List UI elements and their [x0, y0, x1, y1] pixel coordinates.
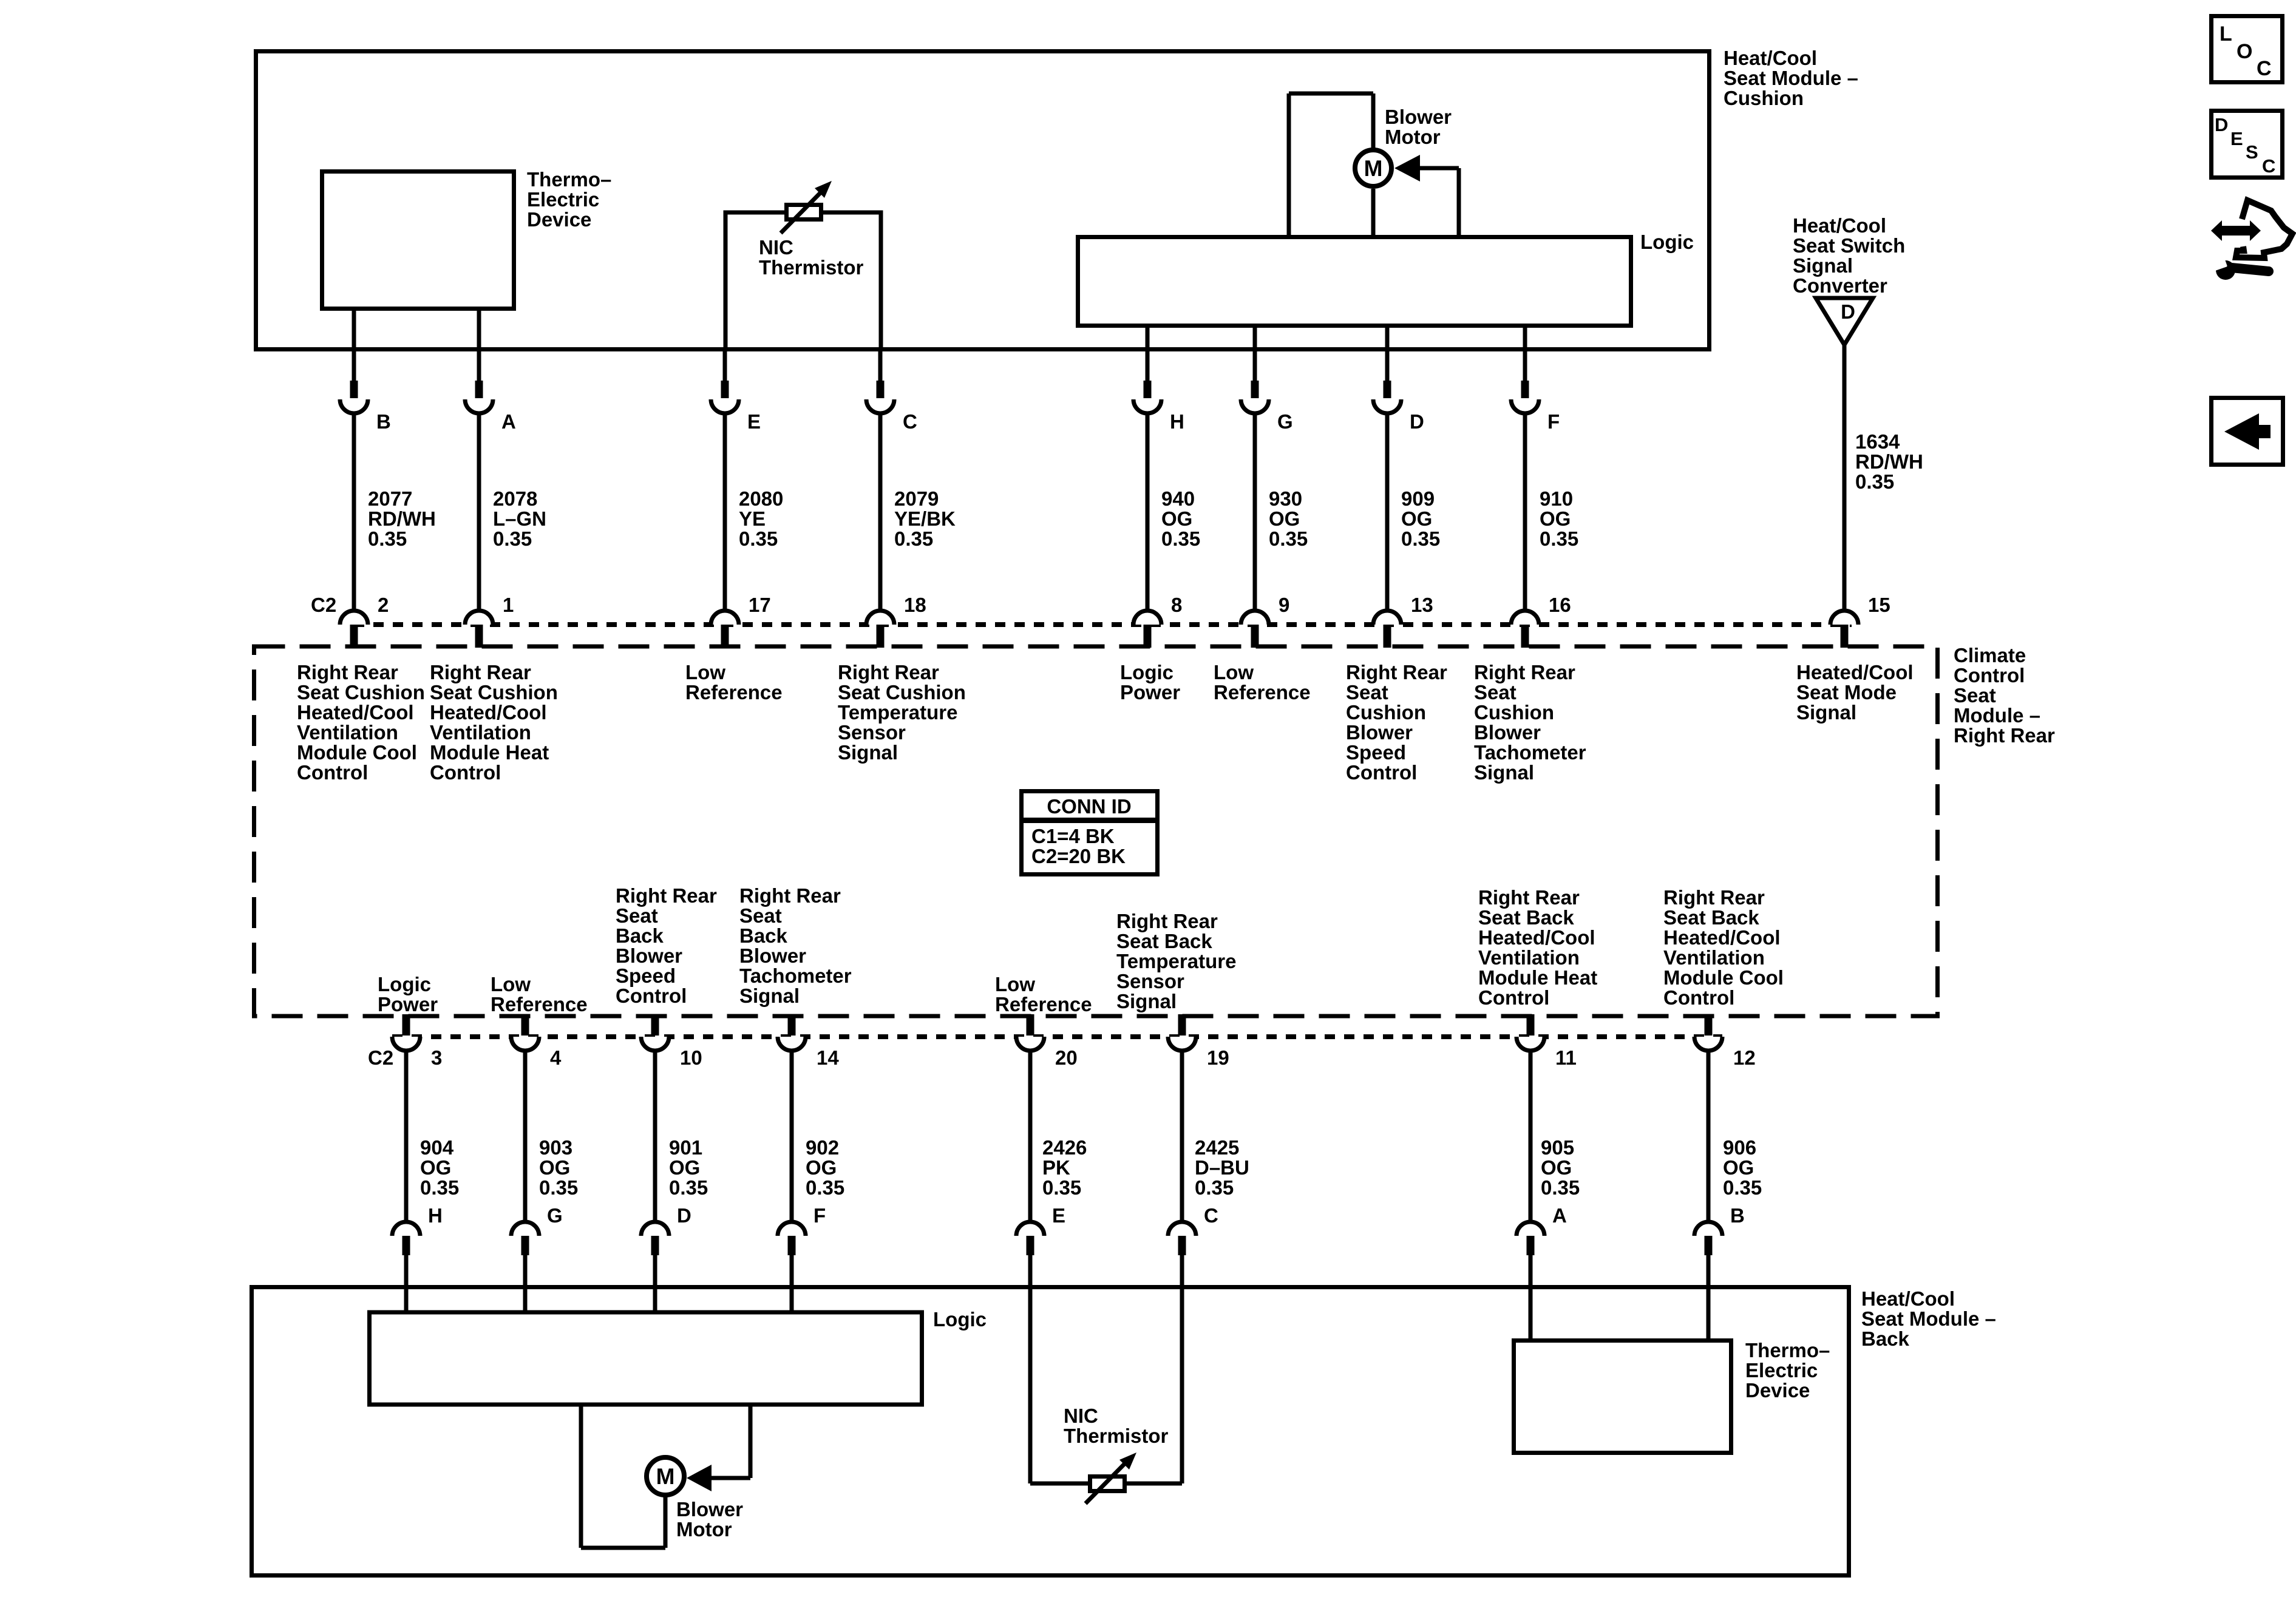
- svg-text:Back: Back: [616, 924, 664, 947]
- pin 11 terminal from module: [1527, 1014, 1535, 1036]
- wire M1 control feed vertical: [1457, 168, 1461, 235]
- svg-text:Blower: Blower: [616, 944, 682, 967]
- svg-text:Right Rear: Right Rear: [616, 884, 717, 907]
- svg-text:902: 902: [806, 1136, 839, 1159]
- svg-text:Seat: Seat: [739, 904, 782, 927]
- svg-text:C2: C2: [311, 594, 336, 616]
- svg-text:D: D: [2215, 114, 2228, 135]
- wire module lead pin A: [477, 349, 481, 381]
- svg-text:Seat Back: Seat Back: [1663, 906, 1759, 929]
- CONN ID header divider: [1019, 818, 1160, 823]
- svg-text:Reference: Reference: [491, 993, 588, 1015]
- svg-text:Temperature: Temperature: [838, 701, 957, 724]
- svg-text:Motor: Motor: [676, 1518, 732, 1541]
- wire blower motor M1 right lead upper: [1371, 93, 1376, 149]
- pin 1 connector arc (C2 top): [465, 611, 493, 625]
- svg-text:Module Cool: Module Cool: [297, 741, 417, 764]
- svg-text:Control: Control: [1663, 986, 1734, 1009]
- svg-text:0.35: 0.35: [739, 527, 778, 550]
- wire label circuit 903 OG 0.35: [539, 1136, 578, 1199]
- pin A connector arc: [465, 399, 493, 413]
- svg-text:0.35: 0.35: [368, 527, 407, 550]
- svg-text:E: E: [1052, 1204, 1065, 1227]
- wire module lead pin G: [1253, 349, 1257, 381]
- svg-text:Sensor: Sensor: [838, 721, 906, 744]
- pin 8 connector arc (C2 top): [1133, 611, 1161, 625]
- svg-text:Heated/Cool: Heated/Cool: [1663, 926, 1781, 949]
- svg-text:Signal: Signal: [1796, 701, 1856, 724]
- wire TED1 pin A lead: [477, 311, 481, 349]
- svg-text:Heated/Cool: Heated/Cool: [430, 701, 547, 724]
- svg-text:Blower: Blower: [1474, 721, 1541, 744]
- svg-text:OG: OG: [1541, 1156, 1572, 1179]
- wire blower motor M2 riser: [664, 1497, 668, 1548]
- pin 17 connector arc (C2 top): [711, 611, 739, 625]
- svg-text:Seat: Seat: [1346, 681, 1388, 703]
- wire pin H into logic U2: [404, 1255, 409, 1314]
- svg-text:Right Rear: Right Rear: [1346, 661, 1447, 683]
- pin H male terminal (back module): [402, 1236, 410, 1255]
- svg-text:Heat/Cool: Heat/Cool: [1724, 47, 1817, 69]
- wire pin G into logic U2: [523, 1255, 528, 1314]
- svg-text:9: 9: [1279, 594, 1289, 616]
- wire label circuit 2079 YE/BK 0.35: [894, 487, 956, 550]
- svg-text:0.35: 0.35: [669, 1176, 708, 1199]
- label DESC letters: [2215, 114, 2275, 177]
- wire label circuit 2426 PK 0.35: [1042, 1136, 1087, 1199]
- pin 12 terminal from module: [1705, 1014, 1713, 1036]
- label Heat/Cool Seat Switch Signal Converter: [1793, 214, 1905, 297]
- pin B connector arc (back module): [1694, 1222, 1722, 1236]
- svg-text:Seat Cushion: Seat Cushion: [838, 681, 966, 703]
- wire blower motor M2 left lead: [579, 1406, 583, 1548]
- pin 3 connector arc (C2 bottom): [392, 1037, 420, 1051]
- svg-text:20: 20: [1055, 1046, 1078, 1069]
- pin 19 terminal from module: [1178, 1014, 1186, 1036]
- svg-text:C: C: [2262, 155, 2275, 177]
- svg-text:2077: 2077: [368, 487, 412, 510]
- wire label circuit 2425 D-BU 0.35: [1195, 1136, 1249, 1199]
- svg-text:11: 11: [1555, 1046, 1577, 1069]
- svg-text:Control: Control: [297, 761, 368, 784]
- svg-text:0.35: 0.35: [539, 1176, 578, 1199]
- svg-text:Tachometer: Tachometer: [1474, 741, 1586, 764]
- svg-text:904: 904: [420, 1136, 454, 1159]
- svg-text:0.35: 0.35: [1195, 1176, 1234, 1199]
- wire TED1 pin B lead: [352, 311, 356, 349]
- pin A connector arc (back module): [1517, 1222, 1544, 1236]
- blower motor M2 (back): [647, 1457, 684, 1495]
- wire circuit to pin F: [1523, 413, 1527, 611]
- svg-text:RD/WH: RD/WH: [1855, 450, 1923, 473]
- thermistor RT2 arrowhead: [1119, 1453, 1136, 1470]
- wire M2 control feed vertical: [749, 1406, 753, 1478]
- pin E male terminal: [721, 381, 729, 398]
- icon box LOC: [2212, 16, 2283, 83]
- pin 9 connector arc (C2 top): [1241, 611, 1269, 625]
- wire M2 control feed horizontal: [693, 1476, 750, 1480]
- wire blower motor M2 bottom lead: [581, 1546, 665, 1550]
- svg-text:Signal: Signal: [1474, 761, 1534, 784]
- svg-text:Seat Cushion: Seat Cushion: [297, 681, 425, 703]
- svg-text:910: 910: [1540, 487, 1573, 510]
- svg-text:13: 13: [1411, 594, 1433, 616]
- svg-text:Seat Module –: Seat Module –: [1724, 67, 1858, 89]
- svg-text:Logic: Logic: [378, 973, 431, 995]
- logic block U2 (back): [370, 1312, 922, 1405]
- svg-text:0.35: 0.35: [1401, 527, 1440, 550]
- wire label circuit 2078 L-GN 0.35: [493, 487, 546, 550]
- svg-text:16: 16: [1549, 594, 1571, 616]
- svg-text:940: 940: [1161, 487, 1195, 510]
- wire circuit from pin 14: [790, 1051, 794, 1222]
- wire module lead pin C: [878, 349, 883, 381]
- svg-text:Signal: Signal: [739, 985, 800, 1007]
- CONN ID table box: [1022, 792, 1158, 875]
- svg-text:H: H: [1170, 410, 1184, 433]
- wire label circuit 2077 RD/WH 0.35: [368, 487, 436, 550]
- pin F male terminal (back module): [788, 1236, 796, 1255]
- wire circuit from pin 20: [1028, 1051, 1033, 1222]
- svg-text:M: M: [656, 1464, 675, 1489]
- svg-text:Control: Control: [616, 985, 687, 1007]
- label Thermo-Electric Device (cushion): [527, 168, 611, 231]
- pin A male terminal: [475, 381, 483, 398]
- pin 15 function label: [1796, 661, 1914, 724]
- svg-text:Speed: Speed: [1346, 741, 1406, 764]
- pin 11 connector arc (C2 bottom): [1517, 1037, 1544, 1051]
- svg-text:18: 18: [904, 594, 926, 616]
- svg-text:C: C: [903, 410, 917, 433]
- svg-text:Blower: Blower: [1346, 721, 1413, 744]
- pin 17 function label: [685, 661, 783, 703]
- svg-text:C2=20 BK: C2=20 BK: [1031, 845, 1126, 867]
- svg-text:905: 905: [1541, 1136, 1574, 1159]
- thermo-electric device TED1 (cushion): [322, 172, 514, 309]
- svg-text:Cushion: Cushion: [1724, 87, 1804, 109]
- thermo-electric device TED2 (back): [1514, 1341, 1731, 1453]
- pin G male terminal (back module): [521, 1236, 529, 1255]
- wire circuit 1634 to pin 15: [1843, 345, 1847, 611]
- pin 12 connector arc (C2 bottom): [1694, 1037, 1722, 1051]
- pin C connector arc (back module): [1168, 1222, 1196, 1236]
- svg-text:Heated/Cool: Heated/Cool: [297, 701, 414, 724]
- pin C male terminal: [877, 381, 885, 398]
- label NIC Thermistor (cushion): [759, 236, 864, 279]
- svg-text:Low: Low: [685, 661, 725, 683]
- svg-text:Module –: Module –: [1954, 704, 2040, 727]
- pin 18 terminal into module: [877, 625, 885, 648]
- icon back-arrow glyph: [2224, 413, 2271, 450]
- wire label circuit 904 OG 0.35: [420, 1136, 459, 1199]
- pin 4 connector arc (C2 bottom): [511, 1037, 539, 1051]
- svg-text:OG: OG: [669, 1156, 700, 1179]
- svg-text:Temperature: Temperature: [1116, 950, 1236, 972]
- pin F connector arc (back module): [778, 1222, 806, 1236]
- signal converter triangle D: [1816, 298, 1873, 345]
- svg-text:19: 19: [1207, 1046, 1229, 1069]
- pin C connector arc: [866, 399, 894, 413]
- svg-text:OG: OG: [1723, 1156, 1754, 1179]
- icon box back-arrow: [2212, 398, 2283, 465]
- svg-text:Right Rear: Right Rear: [1954, 724, 2055, 747]
- svg-text:Seat Mode: Seat Mode: [1796, 681, 1897, 703]
- wire blower motor M1 lower lead: [1371, 189, 1376, 235]
- pin 10 connector arc (C2 bottom): [641, 1037, 669, 1051]
- pin H male terminal: [1144, 381, 1152, 398]
- pin 19 connector arc (C2 bottom): [1168, 1037, 1196, 1051]
- pin 15 terminal into module: [1841, 625, 1849, 648]
- wire label circuit 906 OG 0.35: [1723, 1136, 1762, 1199]
- wire pin E to thermistor RT2: [1028, 1255, 1033, 1483]
- wire circuit to pin B: [352, 413, 356, 611]
- svg-text:B: B: [1730, 1204, 1745, 1227]
- svg-text:OG: OG: [1401, 507, 1432, 530]
- wire circuit to pin H: [1146, 413, 1150, 611]
- svg-text:Right Rear: Right Rear: [1663, 886, 1765, 909]
- svg-text:L–GN: L–GN: [493, 507, 546, 530]
- thermistor RT1 arrowhead: [815, 181, 832, 198]
- svg-text:Seat Cushion: Seat Cushion: [430, 681, 558, 703]
- svg-text:G: G: [547, 1204, 563, 1227]
- svg-text:F: F: [1547, 410, 1560, 433]
- pin 20 terminal from module: [1027, 1014, 1034, 1036]
- svg-text:3: 3: [431, 1046, 442, 1069]
- pin 14 function label: [739, 884, 852, 1007]
- svg-text:Reference: Reference: [1214, 681, 1311, 703]
- pin 18 function label: [838, 661, 966, 764]
- svg-text:Motor: Motor: [1385, 126, 1441, 148]
- svg-text:903: 903: [539, 1136, 572, 1159]
- wire U1 out H: [1146, 327, 1150, 349]
- logic block U1 (cushion): [1078, 237, 1631, 326]
- svg-text:Back: Back: [739, 924, 788, 947]
- svg-text:PK: PK: [1042, 1156, 1070, 1179]
- svg-text:0.35: 0.35: [1723, 1176, 1762, 1199]
- svg-text:OG: OG: [539, 1156, 570, 1179]
- label Blower Motor (cushion): [1385, 106, 1452, 148]
- svg-text:Signal: Signal: [1116, 990, 1177, 1012]
- pin 19 function label: [1116, 910, 1236, 1012]
- svg-text:Control: Control: [1954, 664, 2025, 686]
- svg-text:OG: OG: [1161, 507, 1192, 530]
- arrowhead into M1: [1394, 155, 1420, 181]
- arrowhead into M2: [687, 1465, 712, 1491]
- svg-text:Seat Switch: Seat Switch: [1793, 234, 1905, 257]
- svg-text:0.35: 0.35: [1855, 470, 1894, 493]
- svg-text:Right Rear: Right Rear: [1478, 886, 1580, 909]
- wire module lead pin H: [1146, 349, 1150, 381]
- wire module lead pin F: [1523, 349, 1527, 381]
- module box Climate Control Seat Module - Right Rear (dashed): [254, 646, 1938, 1016]
- pin F male terminal: [1521, 381, 1529, 398]
- svg-text:Reference: Reference: [685, 681, 783, 703]
- pin D male terminal: [1384, 381, 1391, 398]
- svg-text:12: 12: [1733, 1046, 1756, 1069]
- svg-text:1634: 1634: [1855, 430, 1900, 453]
- wire circuit to pin E: [723, 413, 727, 611]
- svg-text:O: O: [2237, 40, 2252, 63]
- icon remove-install tool: double arrow: [2211, 220, 2261, 241]
- pin E connector arc: [711, 399, 739, 413]
- svg-text:Speed: Speed: [616, 964, 676, 987]
- pin D male terminal (back module): [651, 1236, 659, 1255]
- svg-text:0.35: 0.35: [420, 1176, 459, 1199]
- icon remove-install tool: part outline: [2236, 200, 2292, 258]
- pin 13 connector arc (C2 top): [1373, 611, 1401, 625]
- wire circuit from pin 19: [1180, 1051, 1184, 1222]
- wire pin A into TED2: [1529, 1255, 1533, 1338]
- svg-text:Seat: Seat: [1954, 684, 1996, 707]
- svg-text:0.35: 0.35: [1540, 527, 1578, 550]
- svg-text:Tachometer: Tachometer: [739, 964, 852, 987]
- svg-text:Heated/Cool: Heated/Cool: [1796, 661, 1914, 683]
- svg-text:Module Heat: Module Heat: [430, 741, 549, 764]
- svg-text:NIC: NIC: [1064, 1405, 1098, 1427]
- svg-text:S: S: [2246, 141, 2258, 163]
- svg-text:L: L: [2220, 22, 2232, 46]
- wire U1 out F: [1523, 327, 1527, 349]
- pin G connector arc: [1241, 399, 1269, 413]
- svg-text:Right Rear: Right Rear: [838, 661, 939, 683]
- pin 16 connector arc (C2 top): [1511, 611, 1539, 625]
- pin 8 terminal into module: [1144, 625, 1152, 648]
- svg-text:Power: Power: [1120, 681, 1180, 703]
- pin 16 terminal into module: [1521, 625, 1529, 648]
- svg-text:Blower: Blower: [739, 944, 806, 967]
- svg-text:Blower: Blower: [1385, 106, 1452, 128]
- pin 4 function label: [491, 973, 588, 1015]
- pin 15 connector arc (C2 top): [1830, 611, 1858, 625]
- pin D connector arc: [1373, 399, 1401, 413]
- svg-text:2078: 2078: [493, 487, 537, 510]
- svg-text:Signal: Signal: [838, 741, 898, 764]
- svg-text:Logic: Logic: [1120, 661, 1173, 683]
- svg-text:Cushion: Cushion: [1474, 701, 1554, 724]
- svg-text:Heat/Cool: Heat/Cool: [1861, 1287, 1955, 1310]
- thermistor RT1 NIC Thermistor (cushion) body: [787, 205, 821, 220]
- thermistor RT2 variable arrow shaft: [1085, 1463, 1126, 1503]
- pin 9 terminal into module: [1251, 625, 1259, 648]
- svg-text:1: 1: [503, 594, 514, 616]
- svg-text:2426: 2426: [1042, 1136, 1087, 1159]
- svg-text:D: D: [1841, 300, 1855, 323]
- svg-text:M: M: [1364, 156, 1383, 181]
- svg-text:0.35: 0.35: [1161, 527, 1200, 550]
- icon box DESC: [2212, 111, 2283, 178]
- pin 8 function label: [1120, 661, 1180, 703]
- svg-text:C: C: [2257, 57, 2272, 80]
- svg-text:17: 17: [749, 594, 771, 616]
- svg-text:8: 8: [1171, 594, 1182, 616]
- svg-text:Ventilation: Ventilation: [1663, 946, 1765, 969]
- wire thermistor RT2 bottom lead: [1030, 1482, 1182, 1486]
- svg-text:Electric: Electric: [527, 188, 599, 211]
- pin 10 terminal from module: [651, 1014, 659, 1036]
- svg-text:Logic: Logic: [1640, 231, 1694, 253]
- pin E connector arc (back module): [1016, 1222, 1044, 1236]
- wire pin B into TED2: [1707, 1255, 1711, 1338]
- wire label circuit 905 OG 0.35: [1541, 1136, 1580, 1199]
- svg-text:Reference: Reference: [995, 993, 1092, 1015]
- pin 2 connector arc (C2 top): [340, 611, 368, 625]
- svg-text:Seat: Seat: [1474, 681, 1517, 703]
- svg-text:Device: Device: [527, 208, 591, 231]
- pin D connector arc (back module): [641, 1222, 669, 1236]
- svg-text:10: 10: [680, 1046, 702, 1069]
- svg-text:D: D: [677, 1204, 691, 1227]
- label Heat/Cool Seat Module - Back: [1861, 1287, 1996, 1350]
- wire label circuit 1634 RD/WH 0.35: [1855, 430, 1923, 493]
- svg-text:0.35: 0.35: [1269, 527, 1308, 550]
- label Blower Motor (back): [676, 1498, 743, 1541]
- pin G connector arc (back module): [511, 1222, 539, 1236]
- svg-text:C1=4 BK: C1=4 BK: [1031, 825, 1115, 847]
- pin 11 function label: [1478, 886, 1597, 1009]
- pin E male terminal (back module): [1027, 1236, 1034, 1255]
- thermistor RT1 variable arrow shaft: [781, 192, 821, 233]
- svg-text:E: E: [747, 410, 761, 433]
- module box Heat/Cool Seat Module - Cushion: [256, 52, 1710, 350]
- icon remove-install tool: wrench: [2212, 256, 2269, 280]
- svg-text:Seat: Seat: [616, 904, 658, 927]
- svg-text:Power: Power: [378, 993, 438, 1015]
- svg-text:Converter: Converter: [1793, 274, 1887, 297]
- pin G male terminal: [1251, 381, 1259, 398]
- svg-text:Seat Back: Seat Back: [1116, 930, 1212, 952]
- svg-text:Module Heat: Module Heat: [1478, 966, 1597, 989]
- svg-text:Right Rear: Right Rear: [1474, 661, 1575, 683]
- svg-text:B: B: [376, 410, 391, 433]
- svg-text:2080: 2080: [739, 487, 783, 510]
- pin 20 function label: [995, 973, 1092, 1015]
- label LOC letters: [2220, 22, 2272, 80]
- svg-text:CONN ID: CONN ID: [1047, 795, 1131, 818]
- svg-text:930: 930: [1269, 487, 1302, 510]
- pin 9 function label: [1214, 661, 1311, 703]
- svg-text:D: D: [1410, 410, 1424, 433]
- wire circuit to pin D: [1385, 413, 1390, 611]
- wire blower motor M1 top lead: [1289, 92, 1373, 96]
- pin 4 terminal from module: [521, 1014, 529, 1036]
- svg-text:Thermistor: Thermistor: [759, 256, 864, 279]
- svg-text:F: F: [813, 1204, 826, 1227]
- svg-text:C: C: [1204, 1204, 1218, 1227]
- pin 3 terminal from module: [402, 1014, 410, 1036]
- wire circuit from pin 11: [1529, 1051, 1533, 1222]
- svg-text:2079: 2079: [894, 487, 939, 510]
- module box Heat/Cool Seat Module - Back: [252, 1287, 1849, 1576]
- pin H connector arc (back module): [392, 1222, 420, 1236]
- wire circuit from pin 10: [653, 1051, 657, 1222]
- svg-text:Control: Control: [1478, 986, 1549, 1009]
- wire circuit to pin G: [1253, 413, 1257, 611]
- connector C2 harness line (bottom): [392, 1034, 1722, 1039]
- svg-text:Control: Control: [430, 761, 501, 784]
- wire circuit to pin A: [477, 413, 481, 611]
- wire label circuit 940 OG 0.35: [1161, 487, 1200, 550]
- wire module lead pin D: [1385, 349, 1390, 381]
- svg-text:909: 909: [1401, 487, 1435, 510]
- svg-text:0.35: 0.35: [1541, 1176, 1580, 1199]
- wire M1 control feed horizontal: [1401, 166, 1459, 171]
- pin 1 terminal into module: [475, 625, 483, 648]
- pin 16 function label: [1474, 661, 1586, 784]
- wire circuit to pin C: [878, 413, 883, 611]
- wire U1 out D: [1385, 327, 1390, 349]
- pin 13 terminal into module: [1384, 625, 1391, 648]
- pin 2 terminal into module: [350, 625, 358, 648]
